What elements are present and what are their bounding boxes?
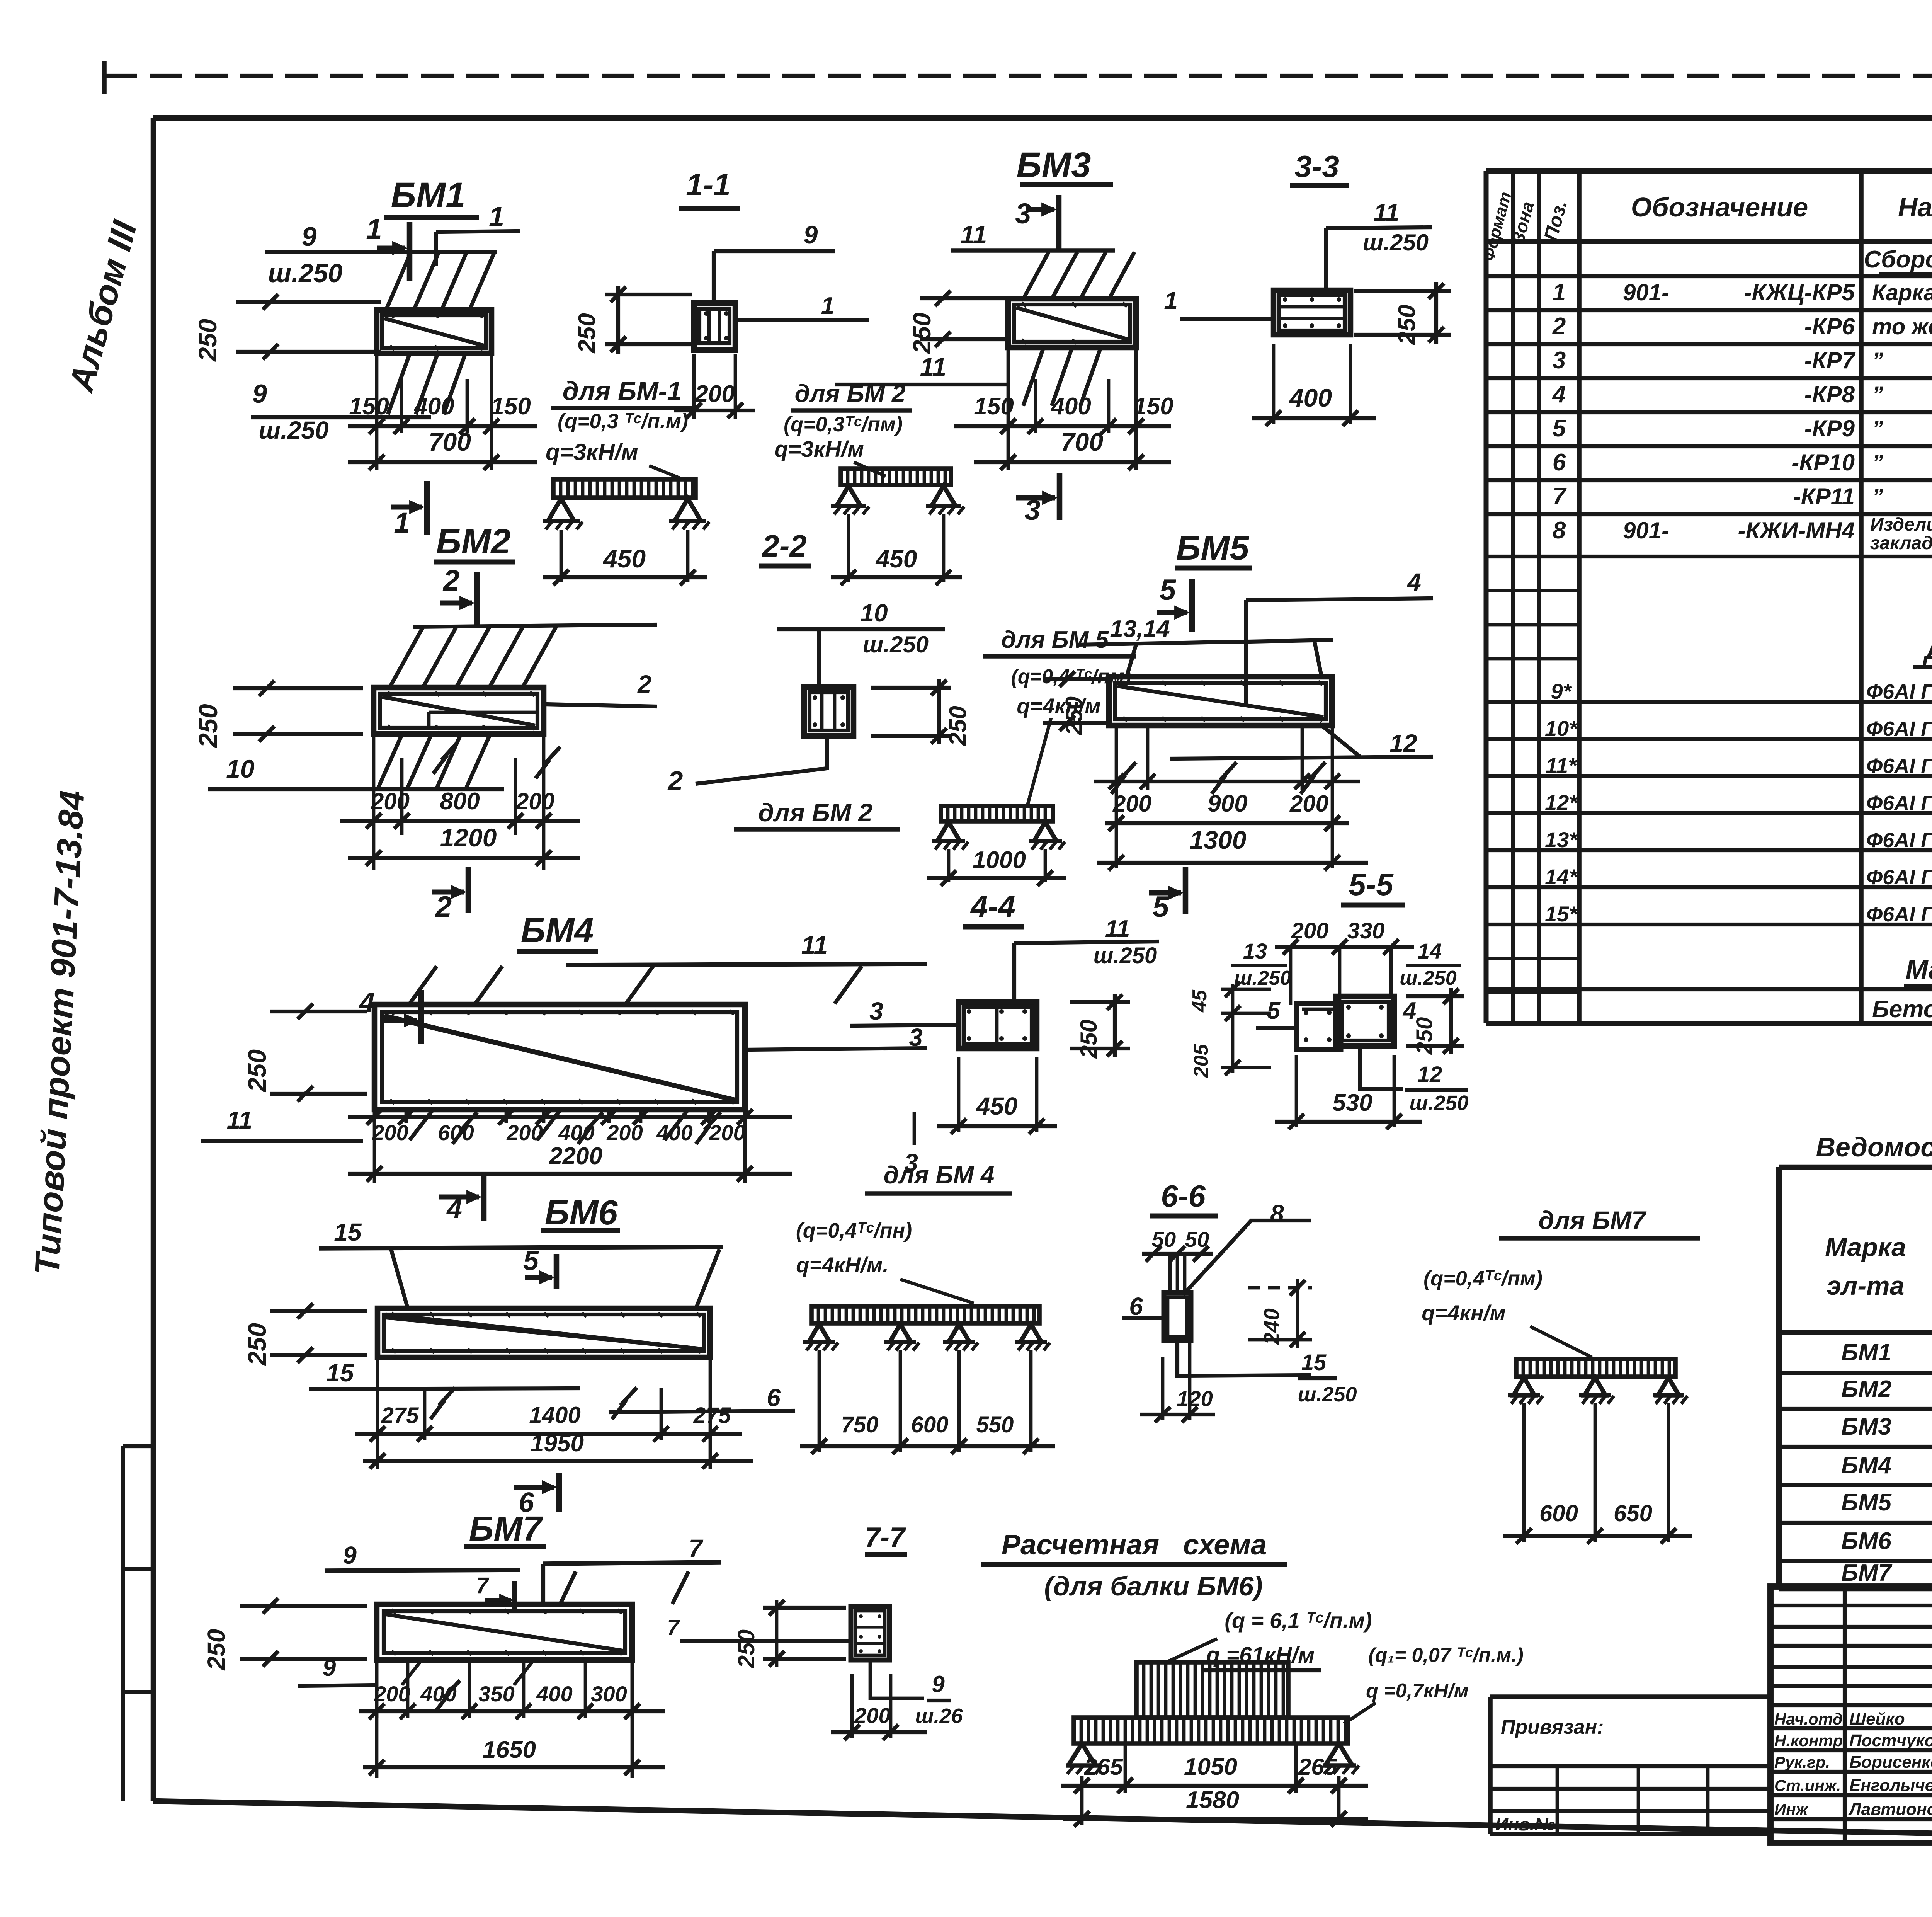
dim 400 below 3-3: [1272, 344, 1276, 424]
svg-text:Ф6АI ГОСТ5781-82, ℓ=175: Ф6АI ГОСТ5781-82, ℓ=175: [1866, 680, 1932, 703]
svg-text:-КР7: -КР7: [1804, 347, 1856, 373]
svg-text:9: 9: [252, 379, 267, 409]
svg-text:для БМ 4: для БМ 4: [884, 1161, 995, 1189]
dim 530 below 5-5: [1295, 1055, 1298, 1127]
svg-text:q=4кН/м.: q=4кН/м.: [796, 1253, 888, 1277]
svg-text:6-6: 6-6: [1161, 1179, 1206, 1213]
svg-text:400: 400: [1050, 393, 1091, 420]
svg-text:q =0,7кН/м: q =0,7кН/м: [1366, 1680, 1469, 1702]
svg-text:9: 9: [932, 1671, 945, 1697]
svg-text:4: 4: [1552, 381, 1566, 408]
dim 250 left of БМ2: [233, 686, 363, 690]
svg-text:ш.250: ш.250: [1363, 230, 1429, 255]
svg-text:-КР8: -КР8: [1804, 381, 1855, 407]
svg-text:ш.250: ш.250: [268, 259, 343, 288]
svg-text:для БМ 5: для БМ 5: [1001, 627, 1109, 653]
svg-text:750: 750: [841, 1412, 879, 1437]
svg-text:10: 10: [226, 754, 255, 783]
section mark 1 bottom: [424, 481, 430, 535]
svg-text:5: 5: [1160, 574, 1177, 606]
расчетная схема lower load bar: [1074, 1718, 1348, 1743]
svg-text:14*: 14*: [1545, 865, 1578, 889]
leader 3 bottom БМ4: [913, 1112, 916, 1145]
support left для БМ2: [837, 486, 861, 506]
для БМ2 dim 450: [847, 514, 850, 582]
hatch plane above БМ1: [386, 254, 410, 309]
svg-text:1: 1: [366, 213, 382, 245]
svg-text:1000: 1000: [973, 847, 1026, 873]
svg-text:10: 10: [860, 599, 888, 627]
svg-text:13*: 13*: [1545, 827, 1578, 852]
svg-text:-КЖИ-МН4: -КЖИ-МН4: [1738, 518, 1855, 543]
leader 1 top right: [434, 232, 438, 266]
svg-text:3-3: 3-3: [1294, 149, 1339, 184]
svg-text:(q=0,4ᵀᶜ/пм): (q=0,4ᵀᶜ/пм): [1423, 1267, 1543, 1290]
svg-text:330: 330: [1347, 918, 1385, 943]
svg-text:3: 3: [1553, 347, 1566, 374]
svg-text:-КР6: -КР6: [1804, 313, 1855, 339]
section 2-2 square: [804, 687, 854, 736]
svg-text:”: ”: [1872, 348, 1883, 373]
specification table grid: [1484, 171, 1489, 1023]
svg-text:Енголычева: Енголычева: [1849, 1776, 1932, 1795]
svg-text:9*: 9*: [1551, 679, 1572, 703]
svg-text:1650: 1650: [483, 1737, 536, 1763]
svg-text:250: 250: [1076, 1020, 1102, 1059]
svg-text:265: 265: [1084, 1754, 1124, 1780]
svg-text:400: 400: [558, 1120, 594, 1145]
section mark 6 bottom: [556, 1473, 562, 1512]
для БМ5 hatched load bar: [941, 806, 1053, 821]
svg-text:БМ7: БМ7: [1841, 1559, 1893, 1586]
leader 6 right БМ6: [609, 1411, 795, 1412]
svg-text:1400: 1400: [529, 1402, 580, 1428]
svg-text:Ф6АI ГОСТ5781-82, ℓ=505: Ф6АI ГОСТ5781-82, ℓ=505: [1866, 792, 1932, 815]
svg-text:Материалы: Материалы: [1906, 954, 1932, 984]
БМ7 bottom dims 200 400 350 400 300 / 1650: [375, 1661, 379, 1718]
svg-text:1-1: 1-1: [686, 167, 731, 202]
svg-text:8: 8: [1270, 1200, 1284, 1227]
svg-text:3: 3: [869, 997, 883, 1025]
section 3-3 rect: [1274, 290, 1350, 335]
svg-text:250: 250: [574, 313, 600, 353]
ведомость table grid: [1779, 1165, 1932, 1170]
svg-text:5: 5: [1267, 998, 1281, 1024]
svg-text:Привязан:: Привязан:: [1501, 1716, 1604, 1738]
dim 250 right of 3-3: [1354, 289, 1451, 293]
svg-text:14: 14: [1418, 939, 1442, 963]
svg-text:700: 700: [1061, 427, 1103, 456]
svg-text:БМ2: БМ2: [1841, 1376, 1891, 1403]
svg-text:275: 275: [381, 1403, 419, 1428]
dim 250 right of 5-5: [1406, 994, 1464, 998]
svg-text:275: 275: [693, 1403, 731, 1428]
svg-text:Каркас плоский: Каркас плоский: [1872, 280, 1932, 305]
svg-text:7: 7: [1553, 483, 1567, 510]
svg-text:12: 12: [1389, 729, 1417, 757]
section 7-7 square: [851, 1606, 889, 1660]
svg-text:200: 200: [1289, 791, 1328, 817]
svg-text:(q₁= 0,07 ᵀᶜ/п.м.): (q₁= 0,07 ᵀᶜ/п.м.): [1368, 1644, 1523, 1667]
svg-text:1050: 1050: [1184, 1754, 1237, 1780]
svg-text:7: 7: [476, 1573, 490, 1598]
hatch plane above БМ2: [413, 625, 657, 627]
svg-text:11: 11: [1105, 916, 1130, 942]
svg-text:400: 400: [413, 393, 454, 420]
расчетная схема supports: [1066, 1763, 1099, 1768]
svg-text:для БМ7: для БМ7: [1538, 1206, 1647, 1234]
svg-text:-КР11: -КР11: [1793, 484, 1855, 509]
svg-text:901-: 901-: [1623, 279, 1669, 305]
svg-text:Шейко: Шейко: [1849, 1709, 1905, 1728]
svg-text:ш.250: ш.250: [1298, 1383, 1357, 1406]
hatch below БМ3: [1023, 348, 1043, 406]
svg-text:2: 2: [442, 564, 459, 597]
svg-text:11: 11: [227, 1106, 252, 1134]
svg-text:”: ”: [1872, 484, 1883, 509]
hatch plane above БМ3: [1024, 252, 1049, 298]
svg-text:250: 250: [1394, 305, 1420, 345]
svg-text:БМ1: БМ1: [391, 175, 466, 215]
svg-text:1: 1: [1553, 279, 1566, 306]
svg-text:250: 250: [945, 706, 971, 746]
svg-text:БМ6: БМ6: [1841, 1528, 1892, 1554]
svg-text:закладное: закладное: [1870, 533, 1932, 553]
svg-text:300: 300: [591, 1682, 627, 1706]
svg-text:900: 900: [1207, 790, 1247, 817]
svg-text:ш.250: ш.250: [1094, 943, 1157, 968]
svg-text:450: 450: [602, 544, 646, 573]
svg-text:”: ”: [1872, 450, 1883, 475]
svg-text:250: 250: [194, 704, 223, 749]
svg-text:7: 7: [667, 1615, 680, 1639]
svg-text:2: 2: [667, 766, 683, 796]
расчетная схема dims 265 1050 265 / 1580: [1080, 1776, 1084, 1825]
supports для БМ4: [809, 1324, 830, 1342]
svg-text:Рук.гр.: Рук.гр.: [1774, 1753, 1830, 1771]
supports для БМ7: [1514, 1377, 1534, 1395]
dim 250 left of 1-1: [605, 293, 692, 296]
БМ3 bottom dims 150 400 150 / 700: [1007, 348, 1010, 470]
svg-text:350: 350: [478, 1682, 514, 1706]
svg-text:250: 250: [243, 1323, 271, 1366]
svg-text:150: 150: [974, 393, 1014, 420]
svg-text:Ф6АI ГОСТ5781-82, ℓ=200: Ф6АI ГОСТ5781-82, ℓ=200: [1866, 829, 1932, 852]
svg-text:13: 13: [1243, 939, 1267, 963]
svg-text:”: ”: [1872, 382, 1883, 407]
hatch below БМ7 zigzag: [402, 1661, 421, 1685]
для БМ7 hatched load bar: [1516, 1359, 1675, 1377]
dim 200 below 1-1: [692, 354, 696, 419]
svg-text:9: 9: [343, 1541, 357, 1569]
svg-text:(q=0,3ᵀᶜ/пм): (q=0,3ᵀᶜ/пм): [784, 413, 903, 436]
svg-text:БМ5: БМ5: [1841, 1489, 1892, 1516]
svg-text:400: 400: [536, 1682, 572, 1706]
svg-text:БМ4: БМ4: [1841, 1452, 1891, 1479]
svg-text:Борисенко: Борисенко: [1849, 1753, 1932, 1772]
svg-text:205: 205: [1190, 1044, 1213, 1078]
hatch below БМ4 with zigzags: [410, 1110, 433, 1140]
svg-text:200: 200: [606, 1120, 643, 1145]
beam БМ2 elevation: [374, 688, 544, 734]
svg-text:9: 9: [804, 220, 818, 249]
svg-text:250: 250: [243, 1049, 271, 1093]
svg-text:Постчуков: Постчуков: [1849, 1731, 1932, 1750]
svg-text:3: 3: [1015, 197, 1031, 230]
svg-text:250: 250: [193, 319, 222, 362]
left margin strip: [121, 1446, 125, 1801]
svg-text:1: 1: [394, 507, 410, 539]
hatch plane above БМ6: [391, 1249, 408, 1309]
svg-text:11: 11: [920, 352, 947, 381]
svg-text:БМ7: БМ7: [469, 1510, 544, 1548]
section 6-6 rect: [1164, 1293, 1191, 1340]
svg-text:q=3кН/м: q=3кН/м: [774, 437, 864, 462]
БМ2 bottom dims 200 800 200 / 1200: [372, 735, 376, 870]
svg-text:ш.26: ш.26: [915, 1704, 963, 1728]
svg-text:8: 8: [1553, 517, 1566, 544]
section mark 2 bottom: [466, 867, 471, 913]
БМ5 bottom dims 200 900 200 / 1300: [1115, 726, 1118, 868]
svg-text:для БМ 2: для БМ 2: [758, 798, 872, 827]
svg-text:Инж: Инж: [1774, 1800, 1809, 1818]
hatch below БМ1: [388, 354, 410, 414]
leader 2 для БМ 2 caption: [696, 737, 827, 784]
svg-text:11: 11: [961, 220, 987, 249]
svg-text:1200: 1200: [440, 823, 497, 852]
beam БМ3 elevation: [1008, 299, 1136, 347]
svg-text:9: 9: [323, 1655, 336, 1681]
svg-text:1950: 1950: [531, 1430, 584, 1457]
svg-text:4-4: 4-4: [970, 889, 1015, 923]
svg-text:1580: 1580: [1186, 1787, 1239, 1813]
расчетная схема upper load bar: [1136, 1662, 1288, 1718]
dim 250 right of 2-2: [871, 686, 951, 690]
svg-text:Н.контр.: Н.контр.: [1774, 1731, 1847, 1750]
svg-text:250: 250: [1412, 1017, 1437, 1055]
svg-text:-КР10: -КР10: [1791, 449, 1855, 475]
svg-text:800: 800: [440, 788, 480, 815]
svg-text:7-7: 7-7: [865, 1522, 906, 1553]
svg-text:Нач.отд: Нач.отд: [1774, 1710, 1843, 1728]
svg-text:600: 600: [1539, 1500, 1578, 1526]
svg-text:15*: 15*: [1545, 902, 1578, 926]
svg-text:650: 650: [1614, 1500, 1652, 1526]
dim 250 left of БМ4: [270, 1010, 367, 1013]
svg-text:ш.250: ш.250: [1400, 967, 1457, 989]
для БМ4 dims 750 600 550: [818, 1350, 821, 1452]
svg-text:13,14: 13,14: [1110, 616, 1170, 642]
svg-text:(q=0,4ᵀᶜ/пн): (q=0,4ᵀᶜ/пн): [796, 1219, 912, 1242]
svg-text:550: 550: [976, 1412, 1014, 1437]
svg-text:600: 600: [438, 1120, 474, 1145]
title block outer: [1770, 1587, 1932, 1843]
svg-text:Ст.инж.: Ст.инж.: [1774, 1776, 1841, 1794]
svg-text:”: ”: [1872, 416, 1883, 441]
dim 200 below 7-7: [850, 1674, 854, 1738]
svg-text:200: 200: [515, 788, 554, 814]
svg-text:БМ5: БМ5: [1176, 529, 1250, 567]
dim 250 left of БМ1: [236, 300, 381, 304]
section mark 5 bottom: [1183, 867, 1189, 914]
support right для БМ2: [932, 486, 956, 506]
svg-text:ш.250: ш.250: [1409, 1091, 1468, 1115]
svg-text:250: 250: [202, 1629, 230, 1671]
support left для БМ-1: [548, 499, 574, 521]
svg-text:600: 600: [911, 1412, 949, 1437]
svg-text:250: 250: [733, 1629, 759, 1668]
svg-text:1300: 1300: [1190, 826, 1247, 854]
support left для БМ5: [937, 822, 960, 841]
dim 450 below 4-4: [957, 1057, 961, 1132]
svg-text:400: 400: [1289, 383, 1332, 412]
svg-text:2200: 2200: [549, 1143, 602, 1170]
svg-text:200: 200: [371, 788, 410, 814]
для БМ2 hatched load bar: [841, 469, 951, 485]
dim 120 below 6-6: [1161, 1357, 1165, 1420]
dim 250 right of 4-4: [1070, 1000, 1130, 1004]
hatch below БМ2: [378, 735, 402, 788]
svg-text:-КЖЦ-КР5: -КЖЦ-КР5: [1744, 279, 1855, 305]
beam БМ4 elevation: [374, 1004, 745, 1110]
svg-text:Обозначение: Обозначение: [1631, 192, 1808, 222]
svg-text:Ф6АI ГОСТ5781-82, ℓ=305: Ф6АI ГОСТ5781-82, ℓ=305: [1866, 866, 1932, 889]
leader 9 ш.26 for 7-7: [870, 1661, 924, 1698]
svg-text:(q=0,3 ᵀᶜ/п.м): (q=0,3 ᵀᶜ/п.м): [558, 410, 688, 433]
БМ6 bottom dims 275 1400 275 / 1950: [376, 1358, 379, 1469]
svg-text:10*: 10*: [1545, 716, 1578, 741]
svg-text:265: 265: [1298, 1754, 1338, 1780]
svg-text:Расчетная схема: Расчетная схема: [1002, 1529, 1267, 1561]
svg-text:ш.250: ш.250: [259, 416, 328, 444]
svg-text:12*: 12*: [1545, 790, 1578, 815]
dim 250 left of БМ5: [1043, 677, 1106, 681]
svg-text:150: 150: [491, 393, 531, 420]
svg-text:то же: то же: [1872, 314, 1932, 339]
svg-text:50: 50: [1152, 1227, 1176, 1251]
svg-text:2: 2: [1552, 313, 1566, 340]
support right для БМ-1: [675, 499, 701, 521]
БМ1 bottom dims 150 400 150 / 700: [375, 354, 379, 470]
svg-text:15: 15: [326, 1359, 354, 1387]
svg-text:q=4кн/м: q=4кн/м: [1422, 1301, 1505, 1325]
hatch plane above БМ4: [410, 966, 437, 1004]
svg-text:5-5: 5-5: [1349, 867, 1394, 902]
svg-text:5: 5: [523, 1245, 539, 1276]
svg-text:2-2: 2-2: [761, 529, 807, 563]
sheet top cut dashed line: [104, 74, 1932, 78]
svg-text:1: 1: [489, 201, 504, 232]
svg-text:(q = 6,1 ᵀᶜ/п.м): (q = 6,1 ᵀᶜ/п.м): [1225, 1608, 1372, 1633]
svg-text:400: 400: [656, 1120, 692, 1145]
svg-text:6: 6: [1553, 449, 1566, 476]
svg-text:Ведомость расхода стали: Ведомость расхода стали на элемент, кг.: [1816, 1132, 1932, 1162]
section 1-1 square: [694, 303, 735, 350]
svg-text:4: 4: [1406, 568, 1421, 596]
svg-text:q=4кн/м: q=4кн/м: [1017, 694, 1100, 718]
svg-text:для БМ-1: для БМ-1: [563, 376, 682, 406]
svg-text:200: 200: [374, 1682, 410, 1706]
drawing frame: [153, 115, 1932, 121]
svg-text:200: 200: [506, 1120, 543, 1145]
svg-text:11: 11: [1374, 199, 1399, 226]
svg-text:240: 240: [1259, 1308, 1284, 1345]
dim 250 left of БМ6: [270, 1309, 367, 1313]
svg-text:11: 11: [801, 931, 828, 959]
svg-text:7: 7: [689, 1534, 704, 1562]
svg-text:Ф6АI ГОСТ5781-82, ℓ=225: Ф6АI ГОСТ5781-82, ℓ=225: [1866, 717, 1932, 741]
svg-text:ш.250: ш.250: [1234, 967, 1291, 989]
svg-text:БМ3: БМ3: [1017, 145, 1091, 185]
svg-text:1: 1: [1164, 287, 1178, 315]
svg-text:(q=0,4 ᵀᶜ/пм): (q=0,4 ᵀᶜ/пм): [1011, 666, 1131, 688]
svg-text:150: 150: [349, 393, 389, 420]
svg-text:700: 700: [429, 427, 471, 456]
svg-text:200: 200: [854, 1703, 890, 1728]
svg-text:5: 5: [1153, 890, 1170, 923]
beam БМ1 elevation: [377, 310, 492, 353]
svg-text:3: 3: [1024, 494, 1040, 526]
dim 240 right of 6-6: [1248, 1286, 1312, 1290]
svg-text:450: 450: [875, 545, 917, 573]
svg-text:1: 1: [821, 293, 834, 319]
svg-text:12: 12: [1417, 1062, 1442, 1087]
svg-text:Наименование: Наименование: [1898, 192, 1932, 222]
svg-text:45: 45: [1189, 989, 1211, 1013]
svg-text:200: 200: [1112, 791, 1151, 817]
dim 250 left of 7-7: [763, 1606, 846, 1610]
svg-text:БМ3: БМ3: [1841, 1413, 1891, 1440]
svg-text:для БМ 2: для БМ 2: [795, 380, 906, 407]
leader 15 ш.250 below 6-6: [1177, 1341, 1311, 1376]
для БМ-1 dim 450: [560, 530, 563, 582]
beam БМ5 elevation: [1109, 677, 1332, 725]
svg-text:Изделие: Изделие: [1870, 514, 1932, 535]
svg-text:200: 200: [709, 1120, 745, 1145]
section 5-5 stepped rects: [1296, 1004, 1341, 1049]
svg-text:450: 450: [976, 1092, 1018, 1120]
svg-text:2: 2: [435, 890, 452, 923]
svg-text:15: 15: [334, 1218, 362, 1246]
svg-text:Инв.№: Инв.№: [1495, 1814, 1555, 1834]
svg-text:ш.250: ш.250: [863, 632, 929, 657]
svg-text:эл-та: эл-та: [1827, 1271, 1905, 1301]
leader 12 ш.250 below 5-5: [1360, 1046, 1403, 1089]
svg-text:Ф6АI ГОСТ5781-82, ℓ=375: Ф6АI ГОСТ5781-82, ℓ=375: [1866, 754, 1932, 778]
svg-text:Сборочные единицы: Сборочные единицы: [1864, 246, 1932, 273]
beam БМ7 elevation: [377, 1604, 632, 1660]
для БМ7 dims 600 650: [1522, 1403, 1526, 1542]
svg-text:5: 5: [1553, 415, 1566, 442]
svg-text:БМ2: БМ2: [436, 522, 511, 561]
svg-text:11*: 11*: [1546, 753, 1577, 778]
svg-text:БМ6: БМ6: [545, 1193, 618, 1232]
svg-text:2: 2: [637, 670, 651, 698]
svg-text:9: 9: [302, 221, 317, 252]
support right для БМ5: [1034, 822, 1056, 841]
svg-text:БМ1: БМ1: [1841, 1339, 1891, 1366]
Привязан table: [1490, 1694, 1770, 1699]
svg-text:БМ4: БМ4: [521, 911, 594, 950]
svg-text:120: 120: [1177, 1386, 1213, 1411]
svg-text:200: 200: [372, 1120, 408, 1145]
svg-text:901-: 901-: [1623, 518, 1669, 543]
svg-text:6: 6: [767, 1384, 781, 1411]
svg-text:Ф6АI ГОСТ5781-82, ℓ=100: Ф6АI ГОСТ5781-82, ℓ=100: [1866, 903, 1932, 926]
dim 250 left of БМ7: [240, 1604, 367, 1608]
для БМ-1 hatched load bar: [553, 479, 696, 498]
для БМ5 dim 1000: [947, 849, 951, 882]
